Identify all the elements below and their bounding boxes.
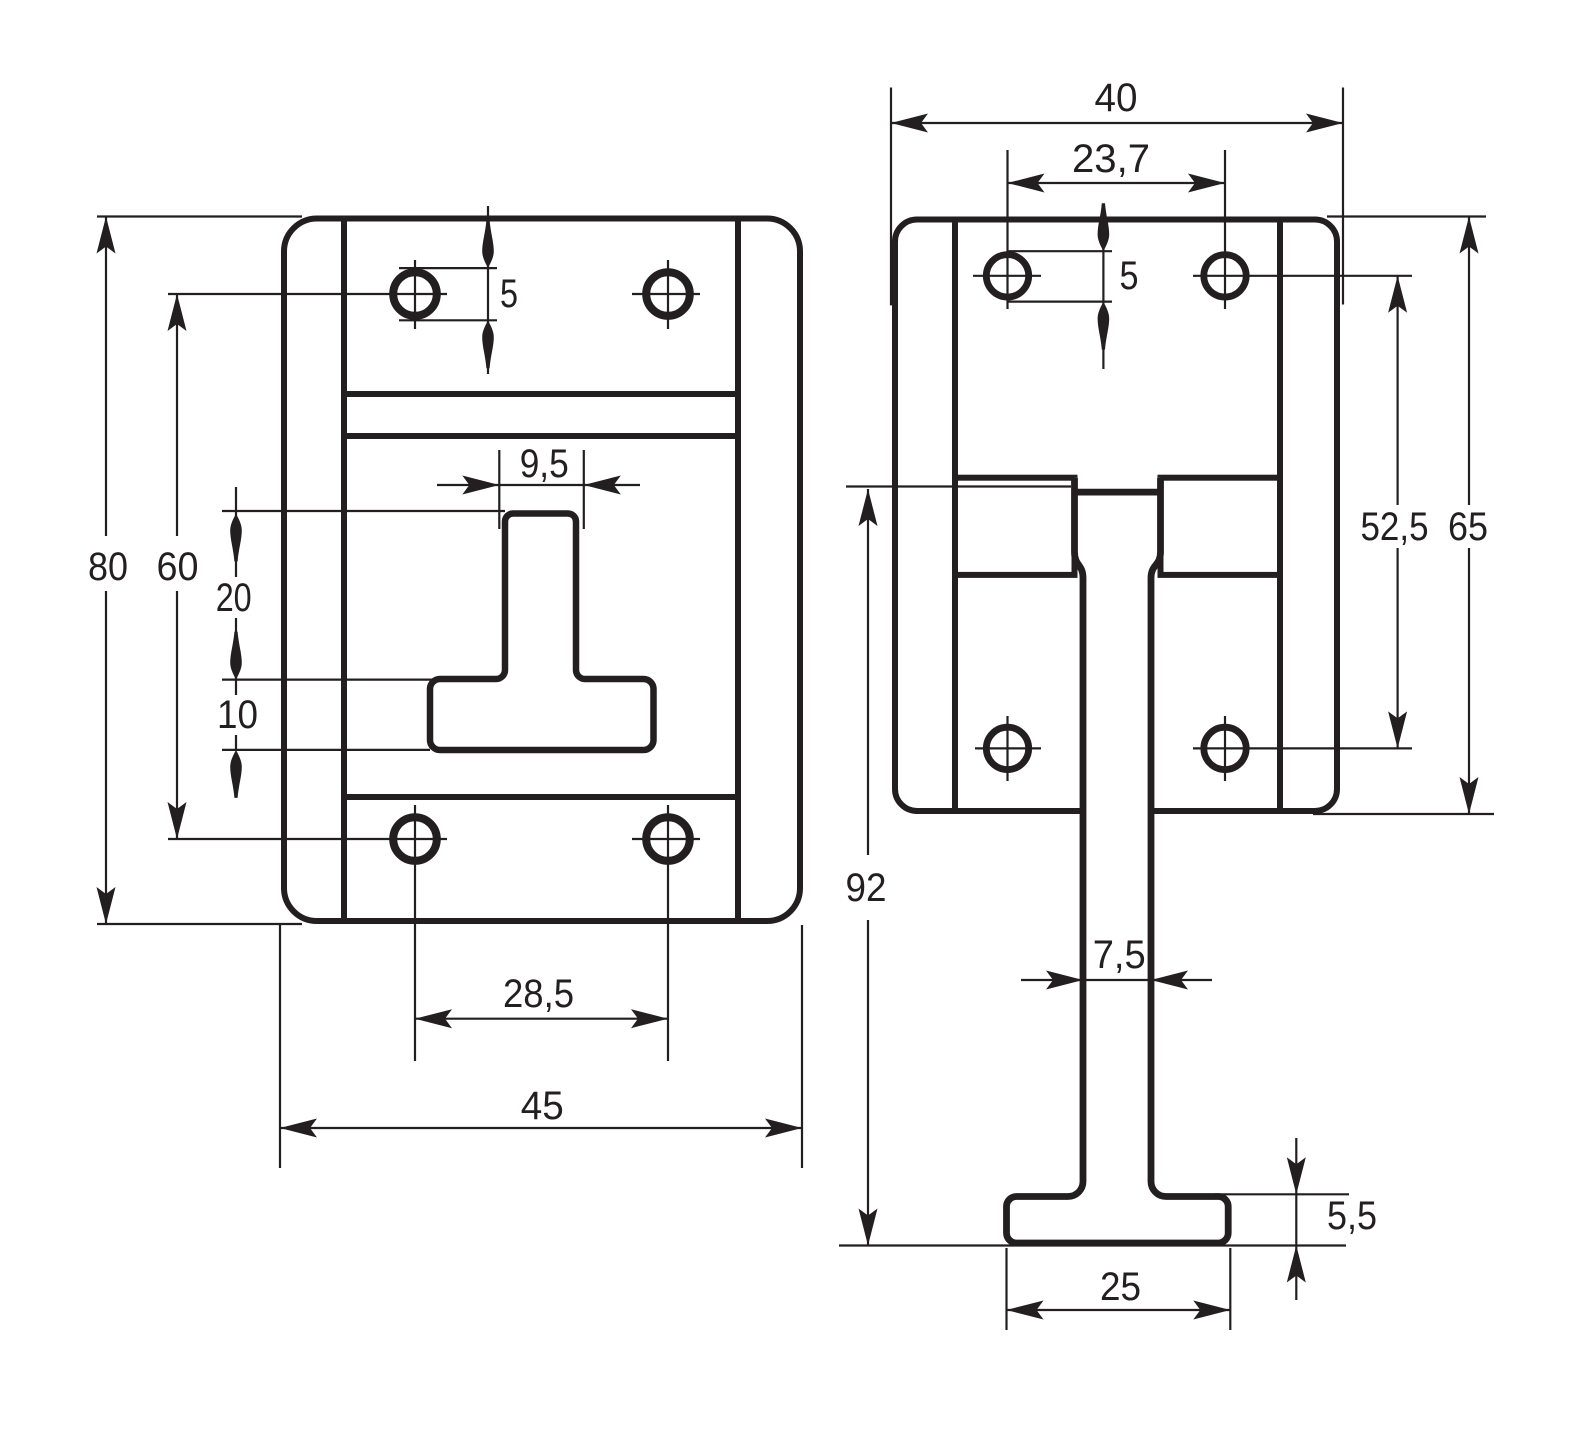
dim 52,5 line upper <box>1396 276 1398 505</box>
mounting hole top-right <box>646 272 690 316</box>
hole centerline <box>632 293 700 295</box>
svg-text:7,5: 7,5 <box>1093 933 1146 977</box>
hole centerline <box>1224 716 1226 781</box>
dim 5,5 extension top <box>1215 1193 1349 1195</box>
dim 28,5 line <box>415 1018 668 1020</box>
hole centerline <box>667 260 669 329</box>
top band second line <box>344 433 738 439</box>
hole centerline to 52,5 dim <box>1193 747 1412 749</box>
dim 5,5 arrow lower <box>1287 1246 1306 1283</box>
dim 92 arrow top <box>859 489 878 526</box>
mounting hole bottom-left <box>393 817 437 861</box>
dim 45 line <box>280 1127 802 1129</box>
svg-text:5: 5 <box>500 272 518 316</box>
dim 7,5 line <box>1021 979 1212 981</box>
dim 28,5 arrow left <box>415 1009 452 1028</box>
dim 65 line upper <box>1468 217 1470 506</box>
hole centerline <box>975 747 1041 749</box>
T-bar stem and foot <box>1007 478 1229 1243</box>
dim 80 arrow bottom <box>97 887 116 924</box>
svg-text:80: 80 <box>88 545 128 589</box>
dim 80 arrow top <box>97 217 116 254</box>
dim 52,5 arrow top <box>1388 276 1407 313</box>
svg-text:23,7: 23,7 <box>1072 137 1150 181</box>
top band lower edge <box>344 391 738 397</box>
dim 23,7 arrow right <box>1188 174 1225 193</box>
dim 40 extension left <box>890 88 892 306</box>
dim 40 arrow right <box>1306 114 1343 133</box>
dim 25 extension left <box>1005 1248 1007 1330</box>
dim 40 arrow left <box>891 114 928 133</box>
dim 9,5 line <box>437 484 640 486</box>
svg-text:45: 45 <box>521 1084 564 1128</box>
svg-text:65: 65 <box>1448 505 1488 549</box>
hole centerline to 28,5 dim <box>414 805 416 1061</box>
dim 92 line lower <box>867 920 869 1246</box>
dim 5 line <box>487 206 489 374</box>
dim 5 arrow lower <box>482 320 494 368</box>
mounting hole bottom-right <box>646 817 690 861</box>
dim 20 line upper <box>235 487 237 577</box>
dim 5 tangent top <box>1008 250 1113 252</box>
hole centerline to 52,5 dim <box>1193 275 1412 277</box>
dim 60 arrow top <box>168 294 187 331</box>
dim 5,5 line <box>1295 1138 1297 1300</box>
hole centerline <box>973 275 1041 277</box>
dim 5 tangent top <box>399 267 497 269</box>
dim 92 arrow bottom <box>859 1209 878 1246</box>
dim 40 line <box>891 122 1343 124</box>
dim 80 extension top <box>97 215 302 217</box>
dim 9,5 arrow right <box>584 476 621 495</box>
dim 20 arrow top <box>230 514 242 562</box>
hole centerline <box>632 838 700 840</box>
hole centerline to 28,5 dim <box>667 805 669 1061</box>
svg-text:25: 25 <box>1100 1265 1141 1309</box>
dim 10 arrow <box>230 750 242 798</box>
dim 5 tangent bottom <box>1008 301 1113 303</box>
dim 25 line <box>1007 1309 1231 1311</box>
hole centerline to 23,7 dim <box>1224 150 1226 309</box>
dim 65 arrow top <box>1460 217 1479 254</box>
dim 52,5 arrow bottom <box>1388 711 1407 748</box>
dim 9,5 tick left <box>498 450 500 529</box>
dim 80 extension bottom <box>97 923 302 925</box>
dim 45 arrow right <box>765 1119 802 1138</box>
hole centerline / 60-dim extension <box>168 838 447 840</box>
mounting hole bottom-left <box>986 727 1028 769</box>
dim 9,5 arrow left <box>462 476 499 495</box>
svg-text:9,5: 9,5 <box>520 442 569 486</box>
dim 25 arrow left <box>1007 1301 1044 1320</box>
svg-text:40: 40 <box>1095 76 1138 120</box>
dim 5 line <box>1102 206 1104 369</box>
dim 65 line lower <box>1468 548 1470 814</box>
dim 10 extension (slot bottom) <box>222 749 430 751</box>
dim 45 extension right <box>801 925 803 1168</box>
dim 9,5 tick right <box>583 450 585 529</box>
svg-text:28,5: 28,5 <box>503 972 574 1016</box>
catch plate outline <box>284 219 800 922</box>
hole centerline <box>414 260 416 329</box>
left flange bend line <box>952 223 958 809</box>
svg-text:5: 5 <box>1120 254 1139 298</box>
mounting hole top-left <box>986 255 1028 297</box>
dim 52,5 line lower <box>1396 548 1398 748</box>
mounting hole top-left <box>393 272 437 316</box>
svg-text:52,5: 52,5 <box>1361 505 1429 549</box>
dim 5 arrow lower <box>1098 302 1110 350</box>
foot baseline <box>839 1244 1346 1246</box>
dim 65 arrow bottom <box>1460 777 1479 814</box>
dim 80 line lower <box>105 591 107 924</box>
hole centerline <box>1006 716 1008 781</box>
hole centerline to 23,7 dim <box>1006 150 1008 309</box>
dim 92 line upper <box>867 489 869 855</box>
right flange bend line <box>1277 223 1283 809</box>
dim 28,5 arrow right <box>631 1009 668 1028</box>
dim 25 extension right <box>1229 1248 1231 1330</box>
dim 20 arrow bottom <box>230 632 242 680</box>
left flange bend line <box>341 222 347 919</box>
dim 5,5 arrow upper <box>1287 1157 1306 1194</box>
bottom band upper edge <box>344 794 738 800</box>
svg-text:10: 10 <box>217 693 258 737</box>
dim 20 extension (slot top) <box>222 510 505 512</box>
dim 60 line upper <box>176 294 178 536</box>
svg-text:5,5: 5,5 <box>1327 1194 1377 1238</box>
right flange bend line <box>735 222 741 919</box>
dim 45 extension left <box>279 925 281 1168</box>
svg-text:20: 20 <box>216 576 252 620</box>
dim 10 line mid <box>235 680 237 695</box>
dim 40 extension right <box>1342 88 1344 305</box>
dim 5 arrow upper <box>1098 203 1110 251</box>
dim 5 arrow upper <box>482 220 494 268</box>
dim 92 extension (stem top) <box>846 485 1071 487</box>
dim 65 extension bottom <box>1313 813 1494 815</box>
dim 65 extension top <box>1327 215 1486 217</box>
mounting hole top-right <box>1204 255 1246 297</box>
dim 25 arrow right <box>1193 1301 1230 1320</box>
keeper block right <box>1161 478 1281 575</box>
dim 23,7 line <box>1008 182 1226 184</box>
dim 5 tangent bottom <box>399 319 497 321</box>
svg-text:92: 92 <box>846 866 887 910</box>
dim 23,7 arrow left <box>1008 174 1045 193</box>
keeper block left <box>955 478 1075 575</box>
dim 20 line lower <box>235 618 237 680</box>
dim 80 line upper <box>105 217 107 537</box>
dim 60 line lower <box>176 591 178 839</box>
dim 20/10 extension (slot shoulder) <box>222 678 434 680</box>
bracket plate outline <box>895 220 1337 812</box>
dim 7,5 arrow right <box>1151 971 1188 990</box>
dim 10 line lower <box>235 735 237 750</box>
hole centerline / 60-dim extension <box>168 293 447 295</box>
T-bar stem top edge <box>1075 489 1161 496</box>
dim 7,5 arrow left <box>1046 971 1083 990</box>
T-slot opening <box>430 514 654 751</box>
mounting hole bottom-right <box>1204 727 1246 769</box>
dim 60 arrow bottom <box>168 802 187 839</box>
svg-text:60: 60 <box>157 545 199 589</box>
dim 45 arrow left <box>280 1119 317 1138</box>
